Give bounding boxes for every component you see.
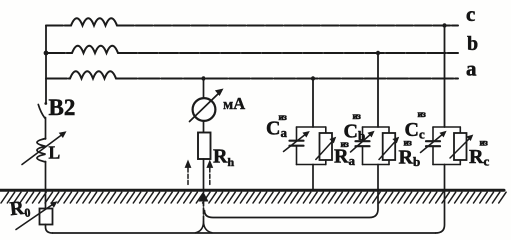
label Rc — [469, 138, 489, 169]
ground current arrow into earth — [199, 192, 209, 226]
resistor Rc (variable) — [454, 127, 467, 165]
variable arrow of Cc — [421, 131, 447, 153]
wire line b to Cb/Rb group — [377, 53, 379, 127]
inductor L arc-suppression coil (variable) — [37, 139, 46, 162]
wire phase line b — [46, 52, 458, 54]
wire line a to Ca/Ra group — [312, 79, 314, 128]
switch B2 — [38, 102, 47, 118]
meter arrow — [190, 89, 224, 122]
capacitor Cc (variable) — [426, 127, 440, 165]
resistor R0 earthing (variable) — [40, 209, 53, 225]
resistor Rh — [198, 133, 211, 160]
wire switch to L — [45, 118, 47, 140]
wire left feeder vertical — [45, 26, 47, 104]
node junction on line b — [44, 51, 49, 56]
wire Ca/Ra group to earth — [312, 165, 314, 190]
wire Ca/Ra loop top — [297, 126, 326, 128]
wire phase line a — [46, 78, 458, 80]
svg-text:b: b — [467, 33, 478, 55]
variable arrow of Rc — [450, 135, 473, 159]
inductor line reactor phase a — [70, 71, 116, 78]
label Cc — [405, 109, 427, 142]
current direction arrow right — [206, 160, 213, 187]
wire Cb/Rb loop top — [363, 126, 390, 128]
node junction of meter branch on line a — [201, 76, 205, 80]
wire line a to meter — [203, 79, 205, 99]
svg-text:Cb: Cb — [344, 121, 366, 144]
node junction of Cc group on line c — [442, 23, 446, 27]
svg-text:B2: B2 — [49, 95, 76, 120]
variable arrow of Cb — [351, 131, 375, 152]
label Rb — [399, 138, 421, 170]
svg-text:c: c — [466, 2, 475, 26]
earth surface line — [0, 189, 504, 192]
svg-text:из: из — [353, 111, 362, 121]
wire Cb/Rb loop bottom — [363, 164, 390, 166]
label Cb — [344, 111, 366, 143]
label Ca — [266, 112, 287, 140]
capacitor Cb (variable) — [356, 127, 370, 165]
svg-text:Rh: Rh — [213, 146, 234, 170]
wire Cb/Rb group under earth to measuring point — [205, 165, 379, 218]
variable arrow of Ra — [316, 137, 336, 160]
wire Cc/Rc group under earth to bottom return bus — [436, 165, 445, 234]
label Ra — [334, 139, 355, 168]
wire Rh to earth — [203, 159, 205, 190]
node junction of Cb group on line b — [376, 51, 380, 55]
inductor line reactor phase c — [71, 18, 117, 25]
svg-text:из: из — [480, 138, 489, 148]
earth hatching — [1, 192, 506, 203]
variable arrow of Ca — [284, 131, 310, 152]
resistor Rb (variable) — [383, 127, 396, 165]
variable arrow of Rb — [379, 137, 399, 160]
svg-text:из: из — [418, 109, 427, 119]
variable arrow of L — [22, 131, 67, 164]
svg-text:a: a — [466, 57, 477, 81]
wire Y-junction to bottom return bus — [196, 222, 213, 233]
wire Ca/Ra loop bottom — [297, 164, 326, 166]
svg-text:мA: мA — [223, 94, 245, 113]
wire R0 to bottom return bus — [46, 225, 53, 234]
wire meter to Rh — [203, 121, 205, 133]
variable arrow of R0 — [16, 201, 58, 229]
wire Cc/Rc loop top — [433, 126, 460, 128]
capacitor Ca (variable) — [290, 127, 304, 165]
svg-text:Rc: Rc — [469, 146, 489, 169]
wire bottom return bus — [53, 232, 436, 234]
inductor line reactor phase b — [72, 46, 118, 53]
svg-text:L: L — [49, 143, 61, 163]
resistor Ra (variable) — [320, 127, 333, 165]
meter mA — [193, 98, 216, 121]
svg-text:Cc: Cc — [405, 119, 425, 142]
svg-text:из: из — [279, 112, 288, 122]
wire L to earth electrode — [45, 162, 47, 209]
wire phase line c — [46, 25, 458, 27]
svg-text:Rb: Rb — [399, 147, 421, 170]
node junction of Ca group on line a — [311, 76, 315, 80]
current direction arrow left — [185, 160, 192, 187]
wire line c to Cc/Rc group — [444, 26, 446, 128]
wire Cc/Rc loop bottom — [433, 164, 460, 166]
